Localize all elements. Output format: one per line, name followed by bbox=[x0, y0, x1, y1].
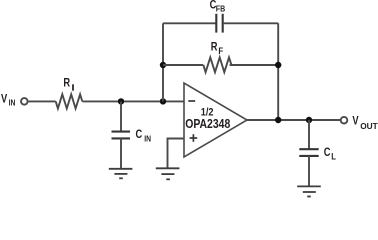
junction RF left node bbox=[160, 62, 166, 68]
svg-text:IN: IN bbox=[9, 98, 16, 108]
op-amp U1 triangle bbox=[184, 83, 247, 157]
wire VIN to R_I bbox=[28, 100, 56, 102]
capacitor CL bbox=[299, 148, 318, 150]
wire CFB left bbox=[163, 22, 216, 24]
terminal VOUT bbox=[341, 117, 348, 124]
terminal VIN bbox=[21, 98, 28, 105]
svg-text:OPA2348: OPA2348 bbox=[185, 118, 231, 131]
svg-text:V: V bbox=[352, 115, 359, 128]
svg-text:R: R bbox=[211, 40, 218, 53]
junction CL node bbox=[306, 117, 312, 123]
wire CL node to CL bbox=[308, 120, 310, 149]
wire CIN to ground bbox=[120, 138, 122, 168]
wire feedback left vertical bbox=[162, 23, 164, 101]
wire feedback right vertical bbox=[277, 23, 279, 120]
ground (below CIN) bbox=[109, 169, 133, 179]
wire R_I to opamp inverting input bbox=[82, 100, 184, 102]
capacitor CFB bbox=[215, 14, 217, 33]
svg-text:FB: FB bbox=[216, 4, 226, 14]
op-amp inverting marker bbox=[188, 100, 195, 102]
node VIN label bbox=[1, 93, 15, 108]
svg-text:C: C bbox=[324, 146, 331, 159]
svg-text:F: F bbox=[218, 46, 223, 56]
ground (below CL) bbox=[297, 186, 321, 196]
junction RF right node bbox=[275, 62, 281, 68]
junction feedback output node bbox=[275, 117, 281, 123]
node VOUT label bbox=[352, 115, 377, 131]
wire node to CIN bbox=[120, 101, 122, 131]
svg-text:OUT: OUT bbox=[360, 121, 378, 131]
resistor RF label bbox=[211, 40, 223, 56]
wire noninverting input to ground bbox=[168, 139, 185, 169]
wire CL to ground bbox=[308, 156, 310, 187]
capacitor CIN label bbox=[136, 128, 152, 144]
resistor RI label bbox=[63, 76, 73, 90]
junction feedback input node bbox=[160, 98, 166, 104]
wire RF right bbox=[230, 64, 279, 66]
resistor RI bbox=[56, 94, 83, 108]
capacitor CIN bbox=[112, 131, 131, 133]
svg-text:L: L bbox=[331, 151, 336, 162]
ground (below opamp + input) bbox=[156, 168, 180, 179]
svg-text:C: C bbox=[136, 128, 143, 141]
op-amp non-inverting marker bbox=[190, 134, 198, 142]
wire RF left bbox=[163, 64, 203, 66]
svg-text:1/2: 1/2 bbox=[201, 107, 214, 119]
junction CIN node bbox=[118, 98, 124, 104]
capacitor CL label bbox=[324, 146, 336, 162]
wire output bbox=[247, 119, 340, 121]
svg-text:V: V bbox=[1, 93, 8, 106]
capacitor CFB label bbox=[210, 0, 226, 14]
svg-text:IN: IN bbox=[144, 134, 151, 144]
svg-text:R: R bbox=[63, 76, 70, 89]
wire CFB right bbox=[223, 22, 279, 24]
resistor RF bbox=[203, 57, 231, 72]
